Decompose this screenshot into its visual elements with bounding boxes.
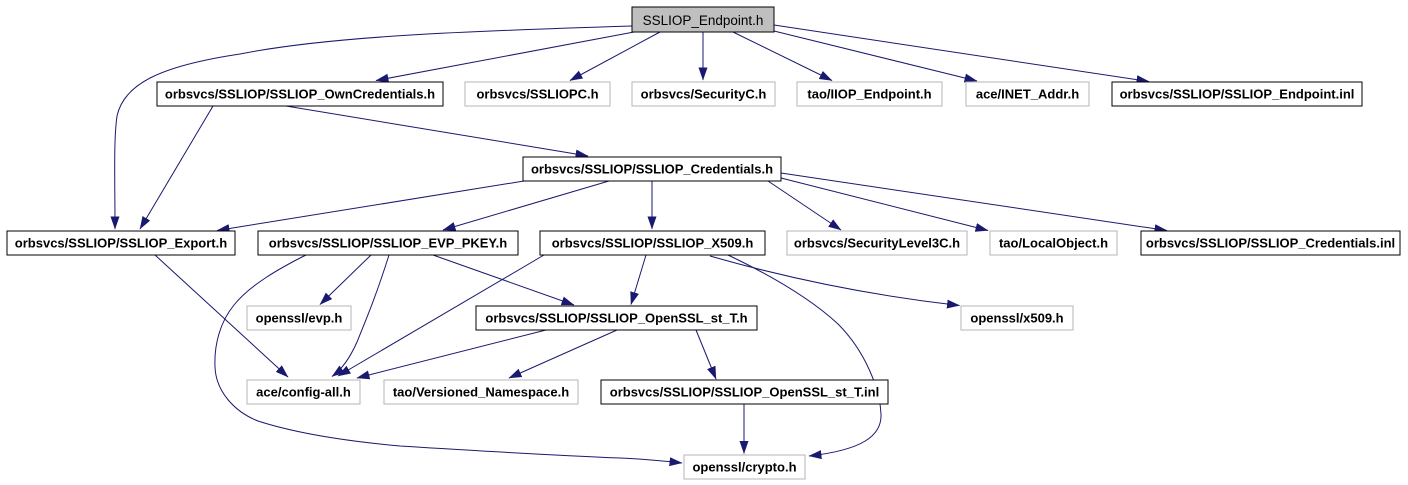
svg-text:openssl/evp.h: openssl/evp.h <box>256 311 343 326</box>
svg-text:tao/IIOP_Endpoint.h: tao/IIOP_Endpoint.h <box>807 87 931 102</box>
svg-text:openssl/crypto.h: openssl/crypto.h <box>692 460 796 475</box>
svg-text:orbsvcs/SSLIOPC.h: orbsvcs/SSLIOPC.h <box>476 87 598 102</box>
svg-text:ace/config-all.h: ace/config-all.h <box>256 385 351 400</box>
svg-text:ace/INET_Addr.h: ace/INET_Addr.h <box>976 87 1079 102</box>
svg-text:orbsvcs/SSLIOP/SSLIOP_Credenti: orbsvcs/SSLIOP/SSLIOP_Credentials.h <box>531 162 773 177</box>
svg-text:orbsvcs/SSLIOP/SSLIOP_EVP_PKEY: orbsvcs/SSLIOP/SSLIOP_EVP_PKEY.h <box>269 236 507 251</box>
svg-text:orbsvcs/SSLIOP/SSLIOP_Endpoint: orbsvcs/SSLIOP/SSLIOP_Endpoint.inl <box>1120 87 1355 102</box>
svg-text:orbsvcs/SSLIOP/SSLIOP_Export.h: orbsvcs/SSLIOP/SSLIOP_Export.h <box>15 236 227 251</box>
svg-text:openssl/x509.h: openssl/x509.h <box>970 311 1063 326</box>
svg-text:orbsvcs/SecurityLevel3C.h: orbsvcs/SecurityLevel3C.h <box>794 236 960 251</box>
svg-text:orbsvcs/SecurityC.h: orbsvcs/SecurityC.h <box>641 87 767 102</box>
svg-text:tao/Versioned_Namespace.h: tao/Versioned_Namespace.h <box>393 385 569 400</box>
svg-text:SSLIOP_Endpoint.h: SSLIOP_Endpoint.h <box>643 13 764 28</box>
svg-text:orbsvcs/SSLIOP/SSLIOP_X509.h: orbsvcs/SSLIOP/SSLIOP_X509.h <box>552 236 754 251</box>
svg-text:orbsvcs/SSLIOP/SSLIOP_OpenSSL_: orbsvcs/SSLIOP/SSLIOP_OpenSSL_st_T.inl <box>610 385 879 400</box>
svg-text:tao/LocalObject.h: tao/LocalObject.h <box>999 236 1108 251</box>
svg-text:orbsvcs/SSLIOP/SSLIOP_OwnCrede: orbsvcs/SSLIOP/SSLIOP_OwnCredentials.h <box>165 87 435 102</box>
svg-text:orbsvcs/SSLIOP/SSLIOP_OpenSSL_: orbsvcs/SSLIOP/SSLIOP_OpenSSL_st_T.h <box>485 311 747 326</box>
svg-text:orbsvcs/SSLIOP/SSLIOP_Credenti: orbsvcs/SSLIOP/SSLIOP_Credentials.inl <box>1146 236 1395 251</box>
